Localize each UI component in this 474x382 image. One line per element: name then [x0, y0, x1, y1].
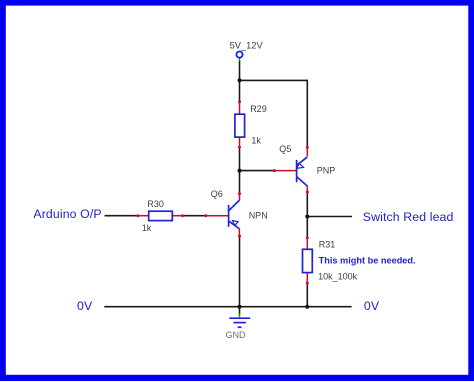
svg-text:10k_100k: 10k_100k — [318, 272, 358, 282]
svg-text:Arduino O/P: Arduino O/P — [33, 207, 101, 221]
svg-text:Switch Red lead: Switch Red lead — [363, 210, 454, 224]
svg-text:R29: R29 — [250, 104, 267, 114]
svg-text:Q6: Q6 — [211, 189, 223, 199]
svg-text:1k: 1k — [251, 136, 261, 146]
svg-text:Q5: Q5 — [279, 144, 291, 154]
svg-text:This might be needed.: This might be needed. — [319, 255, 416, 265]
svg-text:PNP: PNP — [317, 166, 336, 176]
svg-text:R31: R31 — [319, 240, 336, 250]
svg-text:R30: R30 — [147, 199, 164, 209]
svg-text:0V: 0V — [77, 299, 93, 313]
svg-text:0V: 0V — [364, 299, 380, 313]
svg-text:5V_12V: 5V_12V — [230, 40, 264, 50]
svg-text:GND: GND — [226, 330, 247, 340]
svg-text:1k: 1k — [142, 223, 152, 233]
svg-text:NPN: NPN — [249, 211, 268, 221]
